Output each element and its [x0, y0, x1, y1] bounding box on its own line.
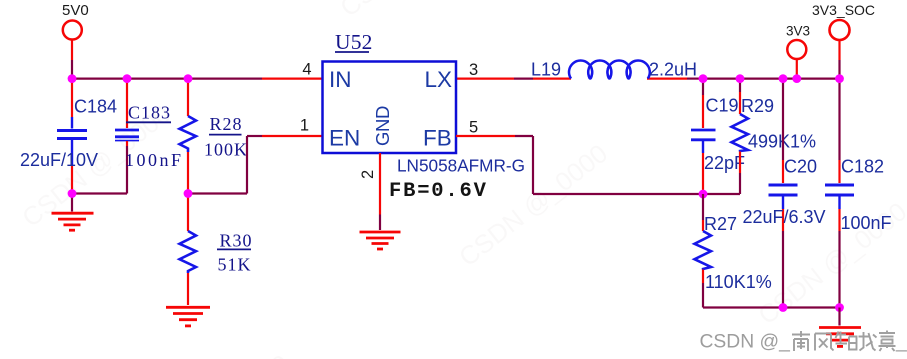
- power flag 3V3_SOC: [812, 2, 875, 78]
- svg-text:CSDN @_0000: CSDN @_0000: [334, 0, 494, 23]
- wire EN net: [188, 136, 323, 194]
- wire top bus right maroon: [703, 77, 840, 79]
- svg-text:_: _: [895, 332, 907, 353]
- svg-text:EN: EN: [329, 126, 360, 151]
- resistor R29: [703, 79, 816, 194]
- svg-text:3V3_SOC: 3V3_SOC: [812, 2, 875, 18]
- svg-text:FB: FB: [423, 126, 452, 151]
- junction dots top bus left: [68, 74, 193, 83]
- svg-text:22uF/10V: 22uF/10V: [20, 150, 98, 170]
- svg-text:R29: R29: [741, 96, 774, 116]
- svg-text:100K: 100K: [204, 140, 248, 160]
- wire LX pin to inductor: [456, 77, 571, 79]
- ground under C184: [52, 194, 94, 231]
- ground bottom right: [819, 308, 861, 347]
- pin number 5: [469, 119, 478, 137]
- svg-text:3: 3: [469, 61, 478, 79]
- svg-text:FB=0.6V: FB=0.6V: [389, 180, 488, 203]
- svg-text:22uF/6.3V: 22uF/6.3V: [743, 207, 826, 227]
- pin number 3: [469, 61, 478, 79]
- junction dots bottom left: [68, 189, 193, 198]
- svg-text:2: 2: [359, 170, 377, 179]
- watermark CJK glyphs: [792, 331, 896, 352]
- glyph zhi: [836, 332, 857, 350]
- capacitor C182: [825, 79, 892, 308]
- wire top bus maroon from 5V0 node: [71, 77, 262, 79]
- svg-text:100nF: 100nF: [125, 150, 184, 170]
- wire pin4 red segment: [262, 77, 323, 79]
- capacitor C183: [115, 79, 184, 194]
- wire FB net: [456, 136, 703, 194]
- svg-text:5V0: 5V0: [62, 2, 89, 19]
- pin number 1: [300, 117, 309, 135]
- pin number 2: [359, 170, 377, 179]
- svg-text:C183: C183: [128, 103, 171, 123]
- wire bottom right bus: [703, 306, 840, 308]
- svg-text:2.2uH: 2.2uH: [649, 60, 697, 80]
- svg-text:R30: R30: [220, 231, 253, 251]
- junction dots top right: [699, 74, 844, 83]
- glyph wo: [859, 332, 877, 351]
- capacitor C20: [743, 79, 826, 308]
- watermark CSDN handle: [700, 332, 907, 353]
- ground pin 2 of U52: [360, 153, 401, 249]
- svg-text:IN: IN: [329, 67, 352, 92]
- svg-text:U52: U52: [335, 30, 373, 54]
- IC U52 body: [323, 30, 526, 203]
- svg-text:110K1%: 110K1%: [705, 272, 772, 292]
- svg-text:CSDN @_: CSDN @_: [700, 332, 791, 353]
- glyph yi: [879, 331, 896, 352]
- svg-text:C182: C182: [841, 157, 884, 177]
- ground under R30: [166, 307, 210, 326]
- svg-text:GND: GND: [372, 106, 393, 146]
- svg-text:C184: C184: [74, 97, 117, 117]
- junction dots bottom bus: [779, 303, 844, 312]
- svg-text:C20: C20: [784, 157, 817, 177]
- resistor R27: [695, 194, 772, 308]
- svg-text:5: 5: [469, 119, 478, 137]
- junction node FB divider: [699, 190, 708, 199]
- svg-text:L19: L19: [531, 60, 561, 80]
- svg-text:LX: LX: [425, 67, 453, 92]
- svg-text:R27: R27: [704, 214, 737, 234]
- svg-text:51K: 51K: [218, 255, 252, 275]
- svg-text:CSDN @_0000: CSDN @_0000: [135, 348, 295, 359]
- svg-text:22pF: 22pF: [704, 153, 745, 173]
- glyph nan: [792, 331, 810, 351]
- capacitor C19: [691, 79, 745, 194]
- glyph feng: [815, 334, 834, 351]
- wire bottom left bus: [72, 192, 127, 194]
- pin number 4: [302, 61, 311, 79]
- capacitor C184: [20, 79, 117, 194]
- power flag 3V3: [786, 24, 810, 79]
- resistor R28: [180, 79, 249, 194]
- svg-text:R28: R28: [210, 114, 243, 134]
- power flag 5V0: [62, 2, 89, 78]
- svg-text:4: 4: [302, 61, 311, 79]
- svg-text:C19: C19: [706, 96, 739, 116]
- resistor R30: [180, 194, 253, 306]
- svg-text:3V3: 3V3: [786, 24, 810, 39]
- svg-text:1: 1: [300, 117, 309, 135]
- inductor L19: [531, 60, 697, 80]
- svg-text:LN5058AFMR-G: LN5058AFMR-G: [397, 156, 525, 176]
- svg-text:100nF: 100nF: [841, 213, 892, 233]
- wire inductor to node: [647, 77, 703, 79]
